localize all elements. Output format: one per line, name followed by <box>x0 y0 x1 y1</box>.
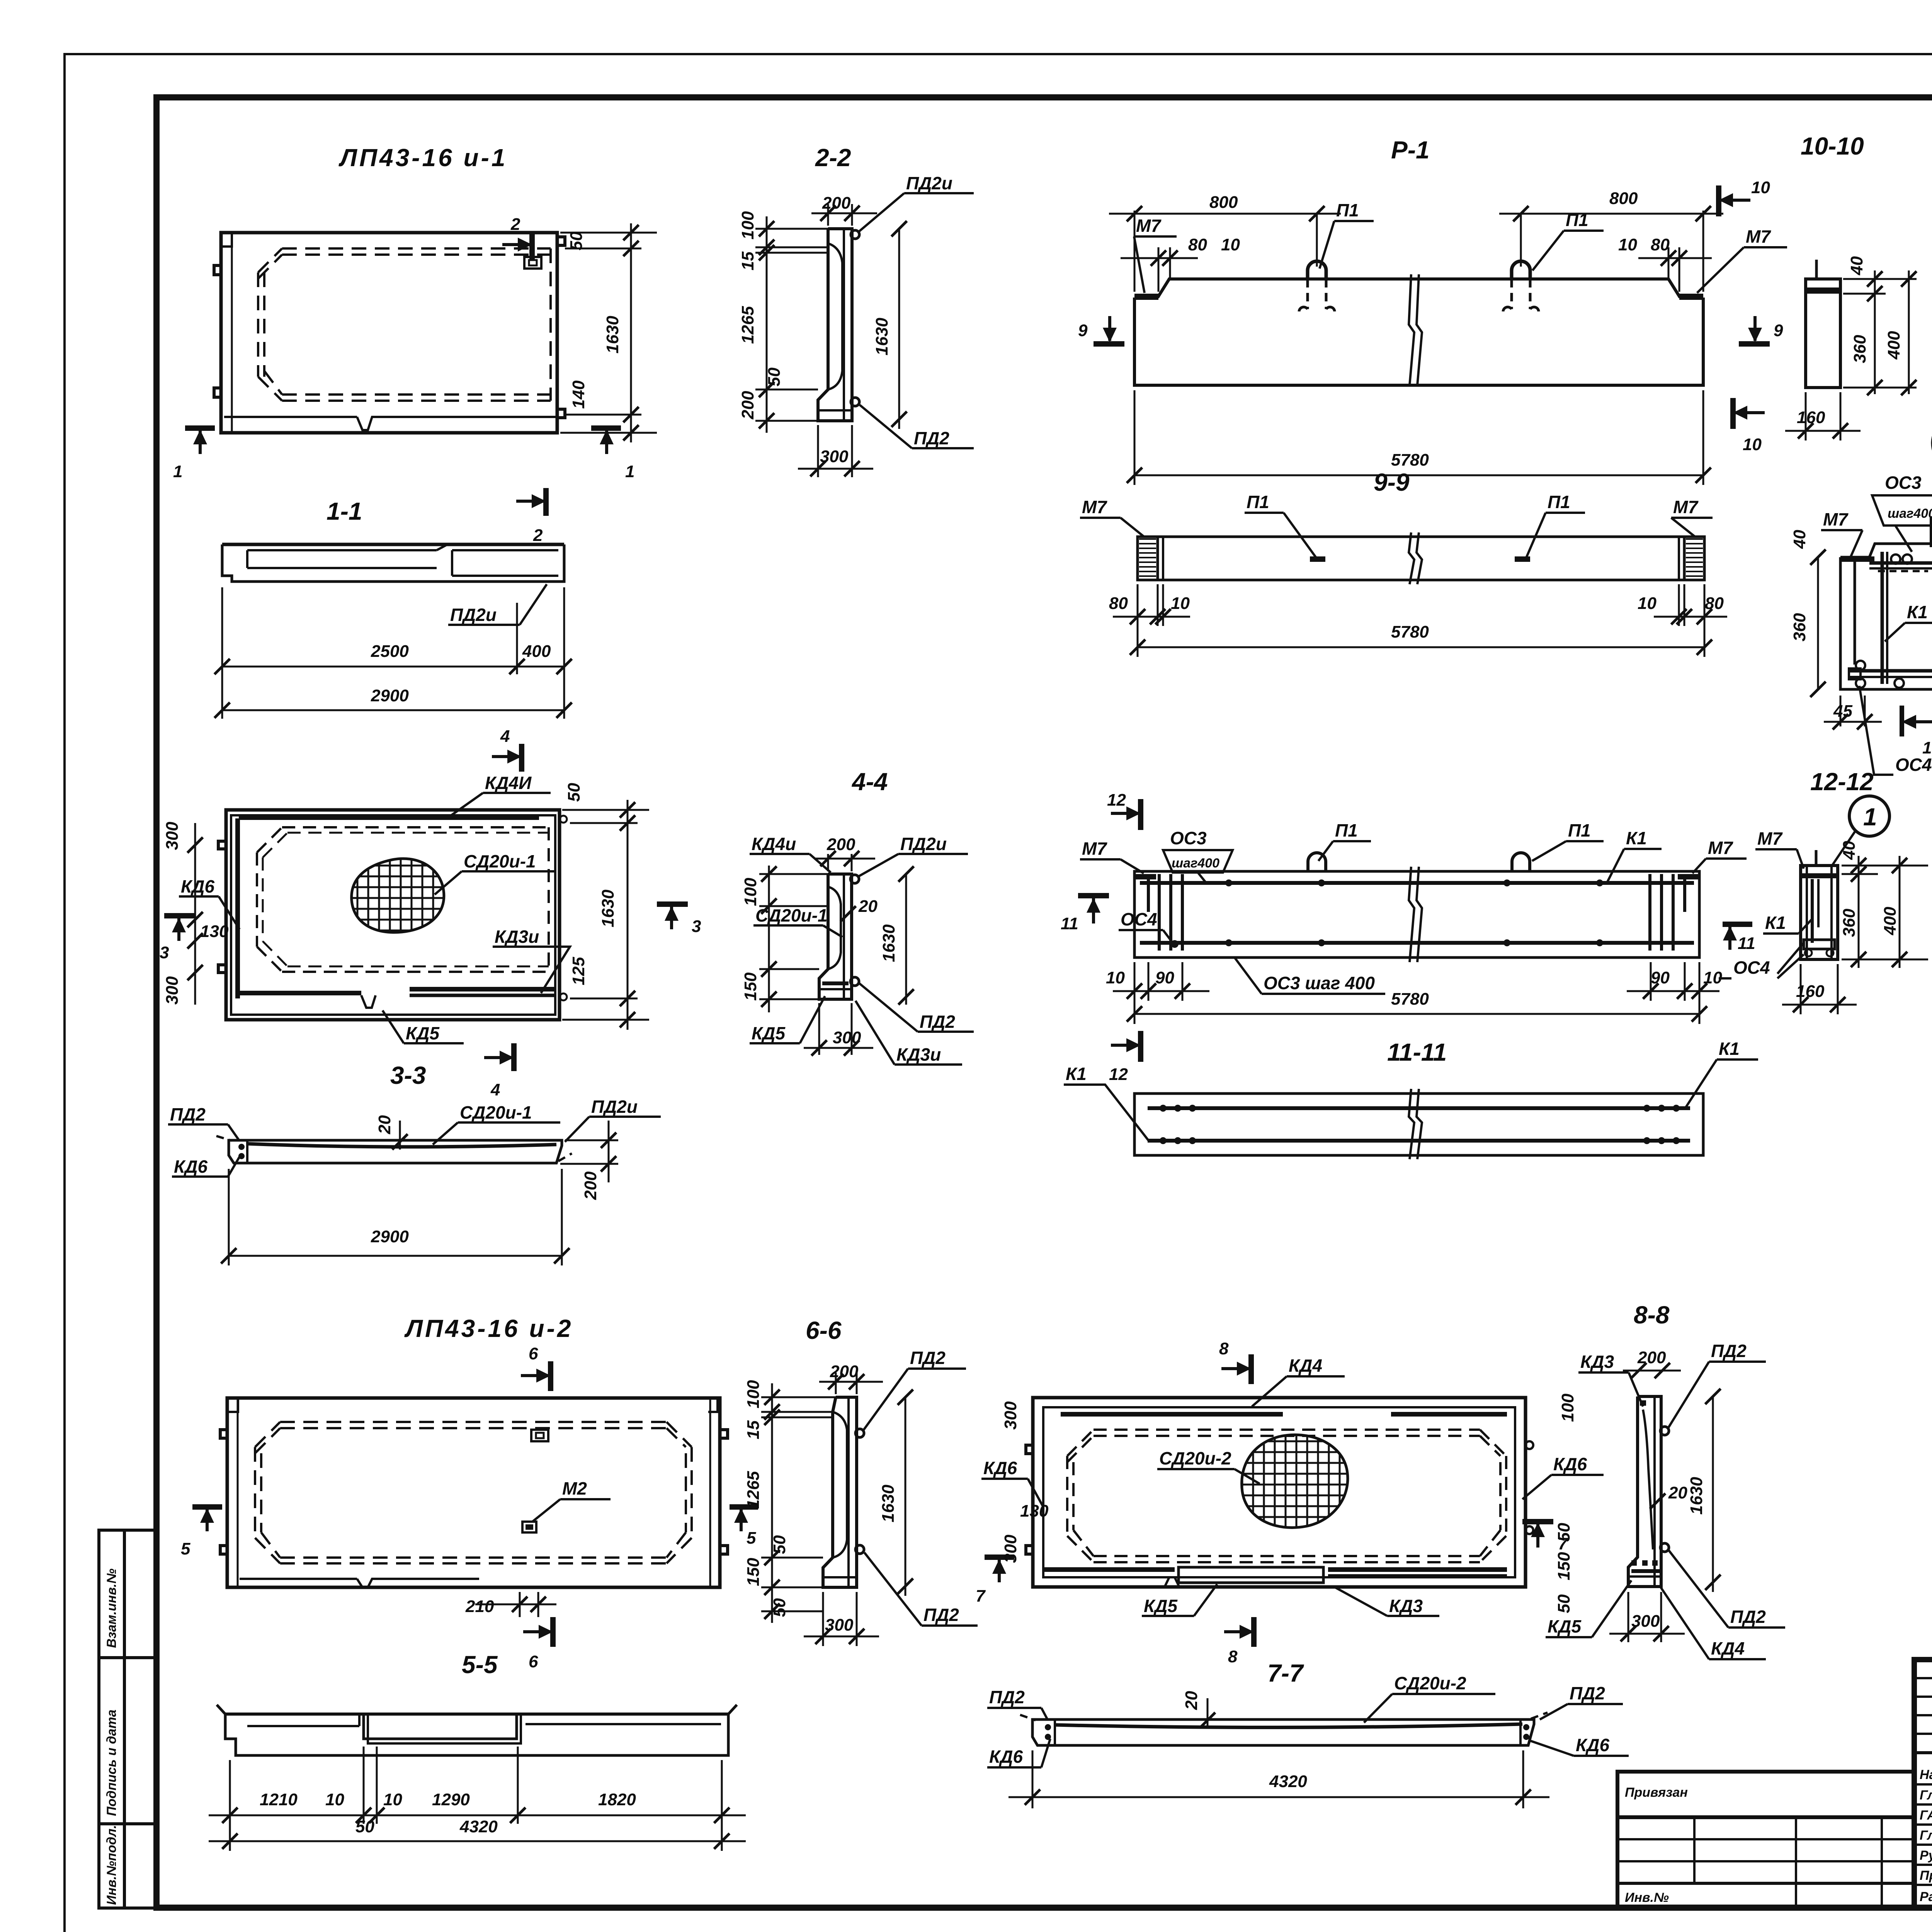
bottom edge notch <box>361 995 376 1008</box>
1630 right dim <box>905 874 907 1005</box>
svg-text:М7: М7 <box>1757 828 1783 849</box>
hatched end plates <box>1138 537 1163 580</box>
bottom bars <box>1849 669 1932 673</box>
svg-text:КД4И: КД4И <box>485 773 532 793</box>
svg-text:Привязан: Привязан <box>1625 1785 1688 1800</box>
svg-text:1630: 1630 <box>879 1485 898 1522</box>
svg-text:ОС4: ОС4 <box>1733 957 1770 978</box>
svg-text:50: 50 <box>355 1817 374 1836</box>
svg-text:6: 6 <box>529 1344 538 1363</box>
dim 5780 <box>1134 390 1136 485</box>
svg-text:Гл.конст.: Гл.конст. <box>1920 1788 1932 1803</box>
svg-text:6: 6 <box>529 1652 538 1671</box>
bottom edge notch <box>1165 1577 1179 1587</box>
dim 10 80 right <box>1668 247 1670 280</box>
break line <box>1409 274 1414 385</box>
vertical bars <box>1854 557 1856 665</box>
svg-text:Р-1: Р-1 <box>1391 136 1430 164</box>
dim row 1 <box>229 1760 231 1851</box>
section mark 9 right <box>1739 316 1783 344</box>
dim 50 / 1630 / 140 right side <box>560 223 657 442</box>
svg-text:Разраб.: Разраб. <box>1920 1889 1932 1904</box>
svg-text:КД6: КД6 <box>1576 1735 1609 1755</box>
svg-text:5780: 5780 <box>1391 990 1429 1009</box>
svg-text:П1: П1 <box>1548 492 1570 512</box>
svg-text:КД6: КД6 <box>983 1458 1017 1478</box>
svg-text:КД3: КД3 <box>1389 1596 1423 1616</box>
section mark 9 left <box>1078 316 1124 344</box>
stirrup dots <box>1160 1105 1167 1112</box>
section flag 2 (bottom) <box>516 488 546 545</box>
svg-text:Нач.АПМ-1: Нач.АПМ-1 <box>1920 1767 1932 1782</box>
svg-text:200: 200 <box>738 391 757 420</box>
svg-text:5780: 5780 <box>1391 451 1429 469</box>
svg-text:ОС3 шаг 400: ОС3 шаг 400 <box>1264 973 1375 993</box>
svg-text:300: 300 <box>825 1616 854 1634</box>
svg-text:50: 50 <box>770 1535 789 1554</box>
end plates <box>1134 874 1156 879</box>
corner detail top-left <box>221 233 232 247</box>
dim 800 left <box>1134 211 1136 292</box>
profile <box>819 874 852 999</box>
section flag 6 bottom <box>523 1617 553 1671</box>
dashed contour double <box>1067 1430 1506 1562</box>
svg-text:Инв.№подл.: Инв.№подл. <box>104 1825 119 1905</box>
svg-text:ПД2: ПД2 <box>1711 1341 1747 1361</box>
svg-text:50: 50 <box>565 783 583 802</box>
svg-text:1630: 1630 <box>1687 1477 1706 1515</box>
svg-text:40: 40 <box>1790 530 1809 549</box>
small marker top <box>531 1430 548 1441</box>
svg-text:3: 3 <box>692 917 701 936</box>
section flag 10 top <box>1719 178 1770 216</box>
lifting hooks right edge <box>557 237 565 245</box>
svg-text:100: 100 <box>741 878 760 906</box>
lifting loops P1 <box>1308 261 1326 279</box>
section 13 flag top <box>1930 516 1932 547</box>
svg-text:КД5: КД5 <box>1548 1616 1582 1636</box>
svg-text:5-5: 5-5 <box>462 1651 498 1679</box>
svg-text:150: 150 <box>1554 1552 1573 1580</box>
right recess <box>526 1723 721 1725</box>
plan outline <box>1033 1398 1526 1587</box>
svg-text:5: 5 <box>181 1539 190 1558</box>
corner detail + bottom strip <box>227 1398 238 1412</box>
left dim chain <box>771 1383 773 1623</box>
svg-text:КД4: КД4 <box>1711 1638 1745 1658</box>
svg-text:50: 50 <box>1554 1523 1573 1542</box>
svg-text:1820: 1820 <box>598 1790 636 1809</box>
svg-text:200: 200 <box>830 1362 859 1381</box>
svg-text:Взам.инв.№: Взам.инв.№ <box>104 1568 119 1648</box>
svg-text:К1: К1 <box>1907 602 1928 622</box>
section flag 2 (top) <box>502 215 532 260</box>
svg-text:2900: 2900 <box>371 686 409 705</box>
svg-text:ПД2: ПД2 <box>170 1104 206 1124</box>
plan outline <box>221 233 557 433</box>
svg-text:10-10: 10-10 <box>1801 132 1864 160</box>
hook circles <box>1891 554 1900 564</box>
bottom heavy bars <box>1043 1567 1175 1572</box>
svg-text:ПД2и: ПД2и <box>900 834 947 854</box>
lifting hooks left edge <box>214 265 221 275</box>
svg-text:10: 10 <box>1638 594 1656 613</box>
top heavy bar KD4 <box>239 815 539 820</box>
svg-text:ПД2: ПД2 <box>1570 1683 1605 1703</box>
svg-text:8: 8 <box>1219 1339 1229 1358</box>
dim 300 bottom <box>1628 1592 1629 1642</box>
svg-text:11-11: 11-11 <box>1387 1038 1447 1066</box>
dim 360 left <box>1817 557 1819 689</box>
svg-text:8: 8 <box>1228 1647 1238 1666</box>
small anchor plate marker top right <box>524 257 541 269</box>
svg-text:80: 80 <box>1109 594 1128 613</box>
dim 2900 <box>228 1169 230 1265</box>
svg-text:М7: М7 <box>1823 509 1849 529</box>
stirrups right <box>1648 874 1651 951</box>
P1 anchors (black dots) <box>1310 556 1325 562</box>
svg-text:4320: 4320 <box>459 1817 498 1836</box>
svg-text:140: 140 <box>569 380 588 409</box>
svg-text:1630: 1630 <box>599 889 617 927</box>
svg-text:КД5: КД5 <box>1144 1596 1178 1616</box>
mesh blob SD20i-1 <box>344 854 456 935</box>
svg-text:1290: 1290 <box>432 1790 470 1809</box>
svg-text:300: 300 <box>1631 1612 1660 1631</box>
hatched bearing plate <box>1840 556 1874 562</box>
top bar <box>1869 561 1932 565</box>
svg-text:3: 3 <box>160 943 169 962</box>
dim 1630 right <box>905 1397 906 1596</box>
svg-text:1: 1 <box>173 462 182 481</box>
svg-text:1265: 1265 <box>744 1471 763 1509</box>
svg-text:40: 40 <box>1840 841 1859 860</box>
section mark 11 right <box>1723 922 1752 927</box>
svg-text:15: 15 <box>738 252 757 270</box>
svg-text:12-12: 12-12 <box>1810 768 1874 796</box>
dim 200 top <box>835 1372 837 1394</box>
svg-text:160: 160 <box>1796 982 1825 1001</box>
svg-text:80: 80 <box>1651 235 1670 254</box>
left recess <box>247 1725 359 1727</box>
svg-text:12: 12 <box>1107 791 1126 810</box>
profile: channel mirrored <box>1628 1396 1661 1587</box>
svg-text:КД6: КД6 <box>181 876 214 896</box>
dashed contour <box>257 827 549 972</box>
svg-text:К1: К1 <box>1626 828 1647 848</box>
svg-text:50: 50 <box>765 367 784 386</box>
section flag 12 top left <box>1138 799 1143 830</box>
svg-text:П1: П1 <box>1247 492 1269 512</box>
svg-text:Гл.спец: Гл.спец <box>1920 1828 1932 1843</box>
svg-text:ПД2и: ПД2и <box>450 605 497 625</box>
svg-text:КД3и: КД3и <box>495 927 539 947</box>
section flag 1 (bottom left) <box>173 428 215 481</box>
dim 80 10 left <box>1158 247 1160 292</box>
bar <box>1138 537 1704 580</box>
sparse stirrup dots along beam <box>1225 879 1232 886</box>
svg-text:П1: П1 <box>1568 820 1591 840</box>
bottom heavy bar KD3 <box>239 991 361 995</box>
svg-text:М7: М7 <box>1082 497 1107 517</box>
svg-text:П1: П1 <box>1335 820 1358 840</box>
beam outline <box>1134 871 1699 957</box>
svg-text:10: 10 <box>1171 594 1190 613</box>
svg-text:400: 400 <box>522 642 551 661</box>
svg-text:210: 210 <box>465 1597 494 1616</box>
svg-text:20: 20 <box>375 1115 394 1134</box>
svg-text:45: 45 <box>1833 702 1852 721</box>
svg-text:400: 400 <box>1881 906 1900 935</box>
left dims 300/130/300 <box>163 821 229 1005</box>
svg-text:2: 2 <box>533 526 543 545</box>
svg-text:9-9: 9-9 <box>1374 468 1410 496</box>
mesh blob SD20i-2 <box>1236 1430 1352 1530</box>
svg-text:100: 100 <box>738 211 757 240</box>
dim 800 right <box>1702 211 1704 292</box>
section flag 8 top <box>1219 1339 1251 1384</box>
dashed inner contour double with chamfers <box>255 1422 692 1563</box>
svg-text:130: 130 <box>1020 1502 1049 1520</box>
stirrups left <box>1147 874 1150 912</box>
section flag 3 left <box>160 916 195 962</box>
bottom strip lines <box>224 416 357 418</box>
dim 300 bottom <box>817 425 819 477</box>
middle deep recess <box>364 1714 517 1739</box>
section flag 1 (bottom right) <box>591 428 634 481</box>
svg-text:4320: 4320 <box>1269 1772 1307 1791</box>
section mark 7 left <box>976 1557 1014 1605</box>
right hooks <box>560 816 567 823</box>
plan outline <box>226 810 560 1020</box>
strip <box>1134 1094 1703 1155</box>
svg-text:300: 300 <box>1001 1401 1020 1430</box>
beam outline <box>1134 298 1703 385</box>
svg-text:шаг400: шаг400 <box>1888 506 1932 521</box>
svg-text:1630: 1630 <box>603 316 622 354</box>
section flag 10 bottom <box>1733 398 1765 454</box>
svg-text:100: 100 <box>744 1380 763 1408</box>
svg-text:10: 10 <box>1743 435 1762 454</box>
dim 200 top <box>827 204 829 226</box>
svg-text:9: 9 <box>1078 321 1088 340</box>
svg-text:М7: М7 <box>1136 216 1162 236</box>
svg-text:СД20и-2: СД20и-2 <box>1159 1448 1231 1468</box>
svg-text:Инв.№: Инв.№ <box>1625 1890 1669 1905</box>
svg-text:100: 100 <box>1558 1393 1577 1422</box>
svg-text:80: 80 <box>1188 235 1207 254</box>
svg-text:ОС3: ОС3 <box>1170 828 1207 848</box>
svg-text:КД6: КД6 <box>989 1747 1023 1767</box>
left dim chain <box>766 216 768 433</box>
KD5 inset plate bottom <box>1179 1567 1323 1583</box>
svg-text:ЛП43-16 и-2: ЛП43-16 и-2 <box>404 1315 573 1342</box>
left margin box: Инв. № подл. <box>99 1824 156 1908</box>
extension lines <box>761 1396 836 1398</box>
svg-text:7: 7 <box>976 1587 986 1605</box>
svg-text:3-3: 3-3 <box>390 1061 426 1089</box>
top heavy bar KD4 <box>1061 1412 1283 1417</box>
svg-text:КД4: КД4 <box>1289 1355 1322 1376</box>
svg-text:П1: П1 <box>1336 200 1359 220</box>
svg-text:1265: 1265 <box>738 306 757 344</box>
svg-text:Подпись и дата: Подпись и дата <box>104 1709 119 1816</box>
svg-text:10: 10 <box>1751 178 1770 197</box>
top hairline extensions <box>755 228 828 230</box>
hook dots <box>851 230 859 239</box>
dim 45 bottom <box>1840 696 1842 726</box>
svg-text:300: 300 <box>1001 1534 1020 1563</box>
svg-text:К1: К1 <box>1066 1064 1087 1084</box>
svg-text:Провер.: Провер. <box>1920 1868 1932 1883</box>
section flag 4 (bottom) <box>484 1043 514 1099</box>
svg-text:1-1: 1-1 <box>327 497 362 525</box>
svg-text:50: 50 <box>770 1598 789 1617</box>
svg-text:20: 20 <box>858 897 878 916</box>
detail circle 1 small <box>1849 796 1889 836</box>
section flag 3 right <box>657 904 701 936</box>
concrete outline <box>1840 544 1932 689</box>
svg-text:ПД2: ПД2 <box>910 1348 946 1368</box>
left margin box: Взам. инв. № <box>99 1530 156 1658</box>
svg-text:300: 300 <box>820 447 849 466</box>
svg-text:ГАП: ГАП <box>1920 1808 1932 1823</box>
svg-text:КД5: КД5 <box>752 1023 786 1043</box>
svg-text:ОС4: ОС4 <box>1895 755 1932 775</box>
svg-text:5: 5 <box>747 1529 756 1548</box>
hooks left <box>220 1430 227 1438</box>
slab <box>229 1140 562 1163</box>
svg-text:15: 15 <box>744 1420 763 1439</box>
svg-text:20: 20 <box>1668 1483 1687 1502</box>
dims 10 80 under right end <box>1704 584 1706 657</box>
dim 200 right <box>565 1139 618 1141</box>
M2 marker + label <box>522 1522 536 1532</box>
svg-text:4: 4 <box>490 1080 500 1099</box>
heavy inner bar <box>822 981 849 985</box>
svg-text:М7: М7 <box>1673 497 1699 517</box>
svg-text:5780: 5780 <box>1391 622 1429 641</box>
slab profile <box>225 1713 728 1716</box>
section 13 flag bottom <box>1900 706 1904 736</box>
dim 4320 <box>1032 1750 1034 1808</box>
svg-text:К1: К1 <box>1765 913 1786 933</box>
svg-text:50: 50 <box>567 231 586 250</box>
dim 160 below <box>1805 392 1807 440</box>
svg-text:8-8: 8-8 <box>1634 1301 1670 1329</box>
svg-text:2500: 2500 <box>371 642 409 661</box>
svg-text:шаг400: шаг400 <box>1172 856 1219 871</box>
svg-text:150: 150 <box>744 1558 763 1586</box>
svg-text:360: 360 <box>1840 908 1859 937</box>
svg-text:6-6: 6-6 <box>806 1316 842 1344</box>
svg-text:ОС4: ОС4 <box>1121 909 1157 929</box>
svg-text:160: 160 <box>1797 408 1825 427</box>
hooks right <box>720 1430 728 1438</box>
svg-text:90: 90 <box>1155 968 1174 987</box>
svg-text:200: 200 <box>581 1171 600 1200</box>
svg-text:ОС3: ОС3 <box>1885 473 1922 493</box>
svg-text:ПД2и: ПД2и <box>906 173 952 193</box>
section flag 8 bottom <box>1224 1617 1254 1666</box>
svg-text:40: 40 <box>1847 256 1866 276</box>
svg-text:10: 10 <box>1106 968 1125 987</box>
svg-text:10: 10 <box>1221 235 1240 254</box>
section flag 4 (top) <box>492 727 522 772</box>
P1 loops <box>1308 853 1326 871</box>
svg-text:130: 130 <box>200 922 229 941</box>
svg-text:150: 150 <box>741 972 760 1001</box>
section body <box>1801 866 1838 959</box>
svg-text:КД4и: КД4и <box>752 834 796 854</box>
left heavy bar KD6 <box>235 818 240 998</box>
profile <box>823 1397 857 1587</box>
svg-text:10: 10 <box>383 1790 402 1809</box>
svg-text:ПД2: ПД2 <box>914 428 949 448</box>
svg-text:М7: М7 <box>1082 838 1107 859</box>
break <box>1409 1089 1414 1159</box>
svg-text:2-2: 2-2 <box>815 144 851 172</box>
dims right 40/360/400 <box>1842 865 1928 867</box>
svg-text:11: 11 <box>1738 934 1755 953</box>
left small rows <box>1914 1677 1932 1679</box>
svg-text:М7: М7 <box>1708 838 1733 858</box>
svg-text:ПД2: ПД2 <box>989 1687 1025 1707</box>
dim 1630 right <box>898 229 900 429</box>
svg-text:КД3и: КД3и <box>896 1044 941 1065</box>
dims 80 10 under left end <box>1137 584 1139 657</box>
svg-text:360: 360 <box>1790 613 1809 641</box>
svg-text:800: 800 <box>1209 193 1238 212</box>
break <box>1409 532 1414 584</box>
svg-text:М2: М2 <box>562 1478 587 1498</box>
svg-text:2900: 2900 <box>371 1227 409 1246</box>
dims right <box>1843 278 1917 280</box>
channel profile <box>818 229 852 421</box>
corner ticks <box>217 1705 737 1714</box>
section flag 12 bottom <box>1138 1031 1143 1062</box>
svg-text:КД6: КД6 <box>174 1156 207 1177</box>
150 dim left bottom <box>759 968 819 970</box>
dim 210 <box>519 1592 521 1617</box>
svg-text:СД20и-1: СД20и-1 <box>464 851 536 871</box>
svg-text:Рук.гр.: Рук.гр. <box>1920 1848 1932 1863</box>
svg-text:КД5: КД5 <box>406 1023 440 1043</box>
svg-text:1: 1 <box>1863 803 1877 831</box>
svg-text:4: 4 <box>500 727 510 746</box>
dim 5780 <box>1134 1013 1699 1015</box>
svg-text:1210: 1210 <box>260 1790 298 1809</box>
top/bottom reinforcement <box>1140 881 1694 885</box>
svg-text:11: 11 <box>1061 914 1078 933</box>
svg-text:80: 80 <box>1705 594 1724 613</box>
svg-text:360: 360 <box>1850 335 1869 363</box>
svg-text:125: 125 <box>569 957 588 985</box>
svg-text:М7: М7 <box>1746 226 1771 247</box>
svg-text:12: 12 <box>1109 1065 1128 1084</box>
svg-text:400: 400 <box>1884 331 1903 360</box>
svg-text:ПД2и: ПД2и <box>591 1097 638 1117</box>
svg-text:4-4: 4-4 <box>851 768 888 796</box>
svg-text:КД3: КД3 <box>1580 1352 1614 1372</box>
plan inner dashed contour (double) <box>282 247 551 250</box>
section flag 6 top <box>521 1344 551 1391</box>
svg-text:50: 50 <box>1554 1594 1573 1613</box>
section mark 7 right <box>1522 1522 1568 1553</box>
svg-text:200: 200 <box>1637 1348 1666 1367</box>
svg-text:300: 300 <box>163 976 182 1005</box>
dim 300 bottom <box>822 1592 824 1646</box>
